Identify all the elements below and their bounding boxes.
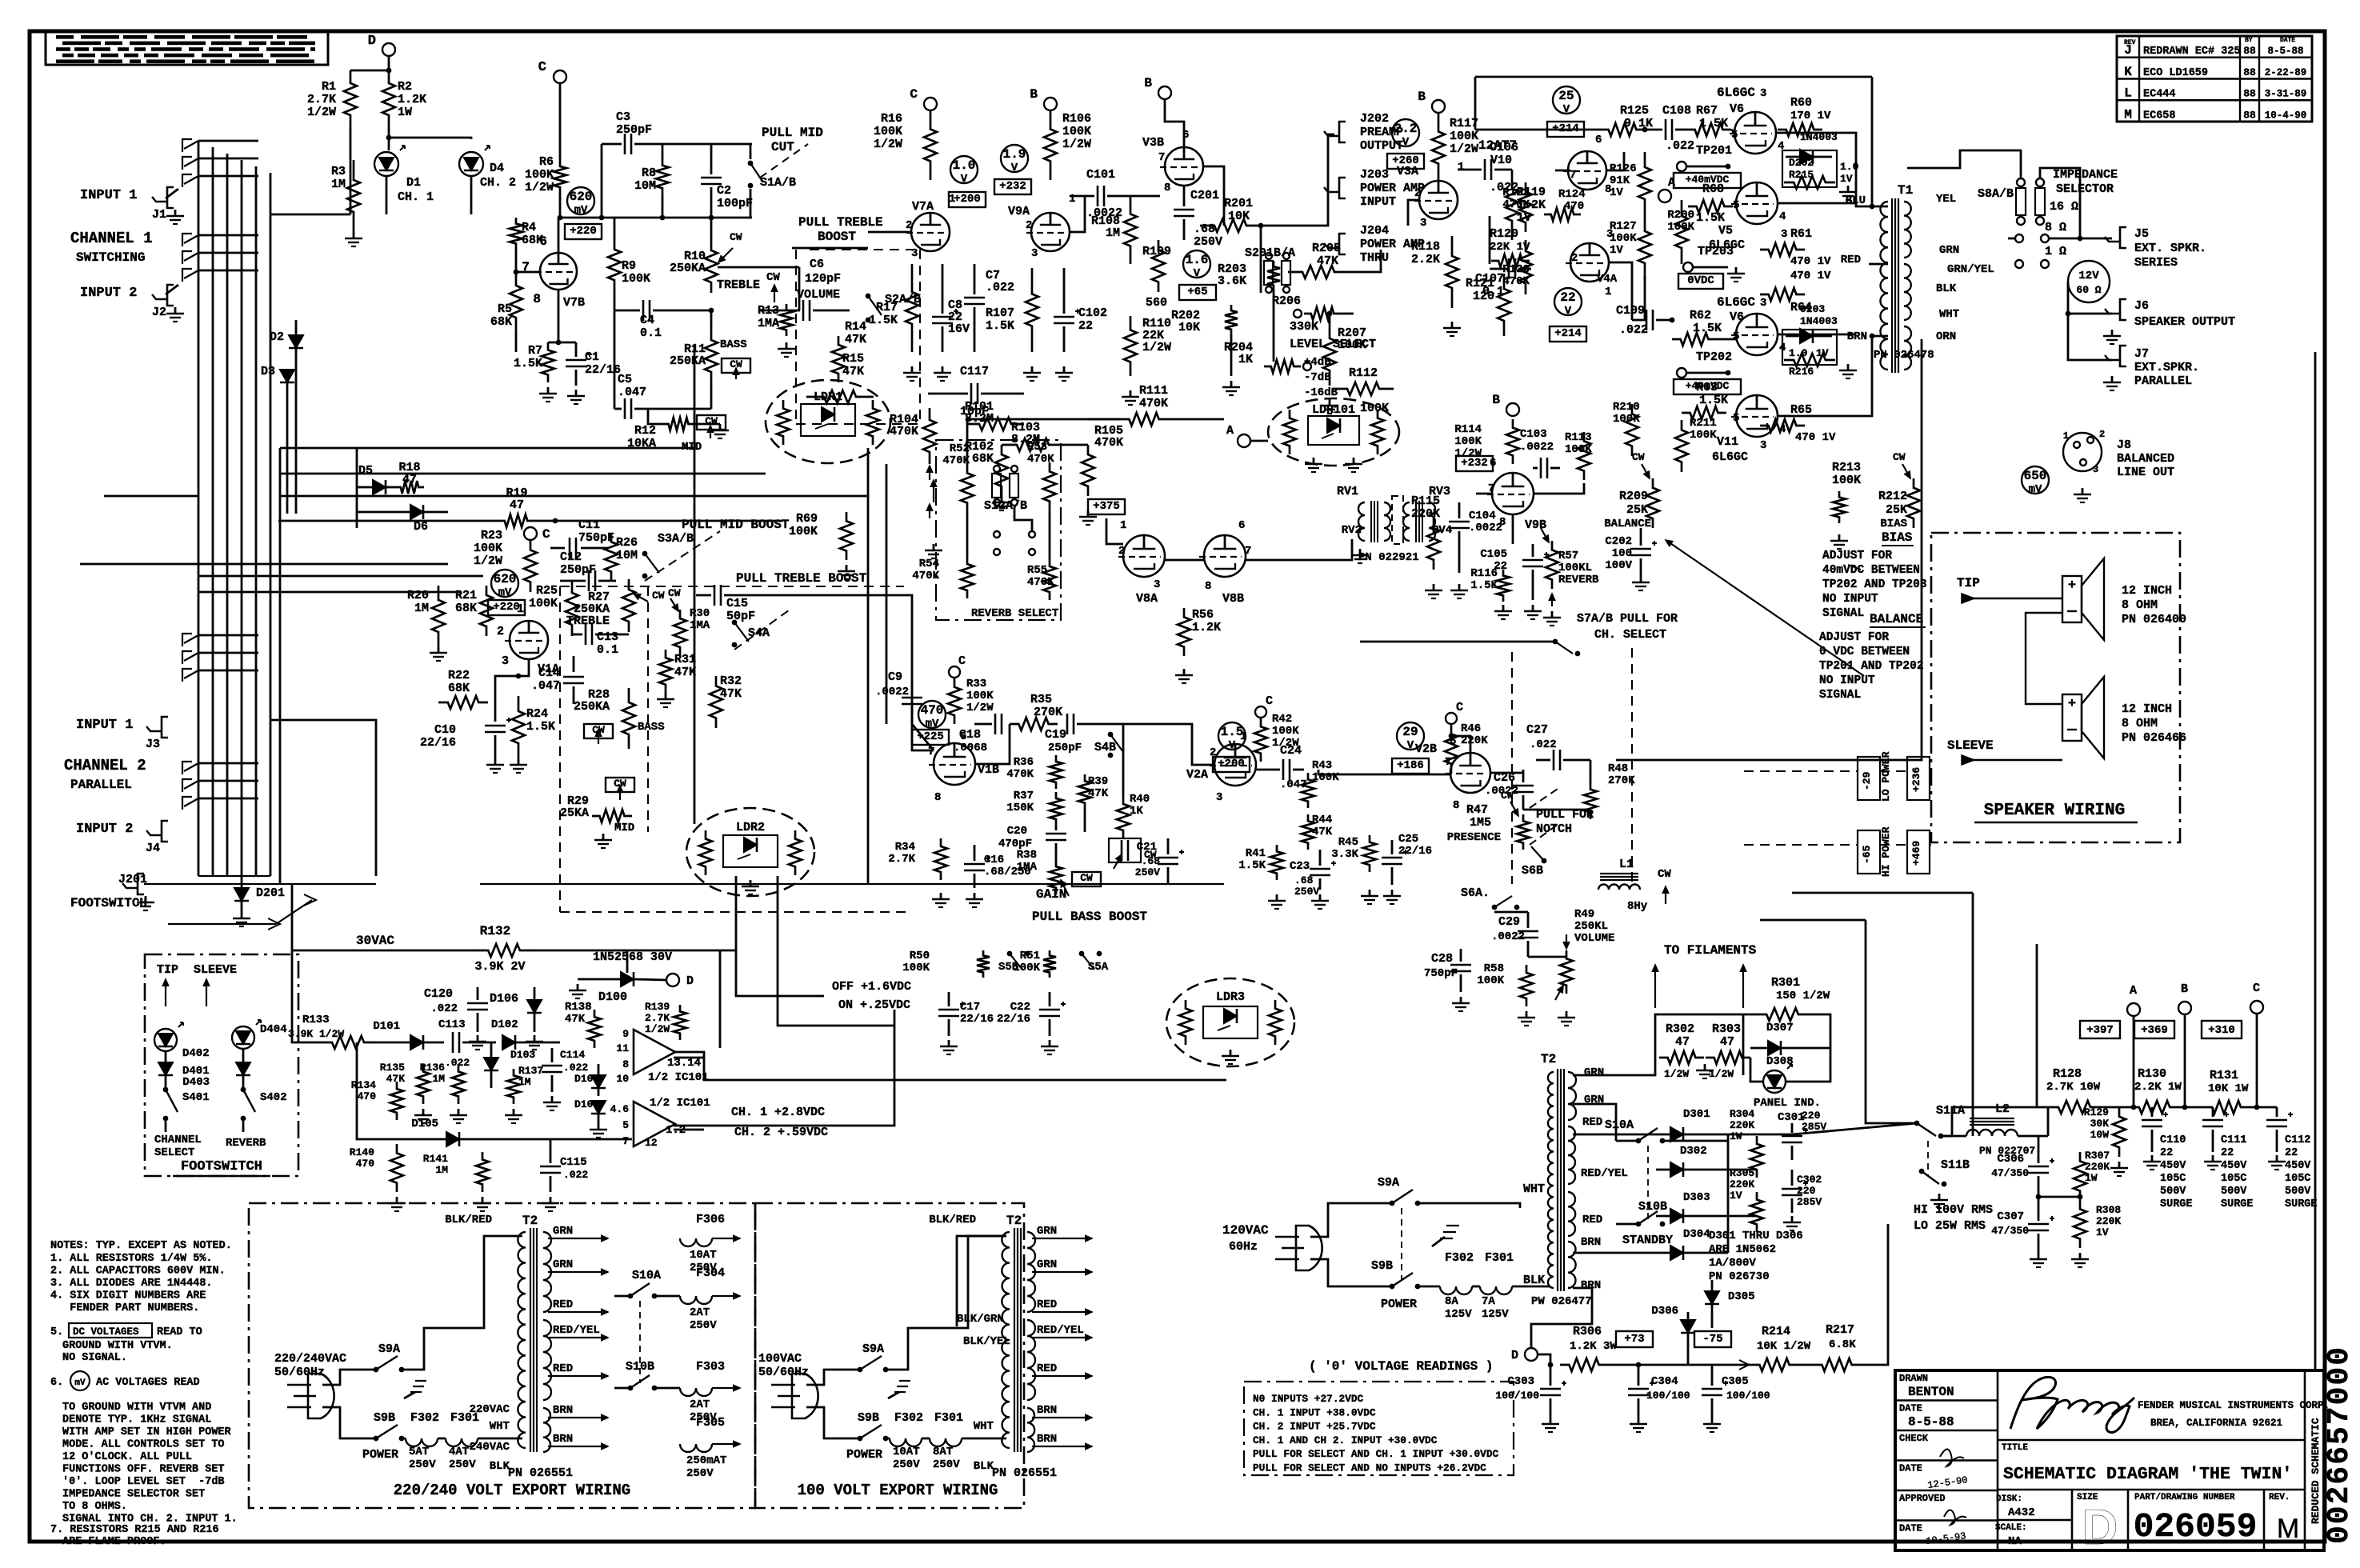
wire — [1476, 493, 1492, 495]
svg-text:C5: C5 — [618, 373, 632, 386]
svg-text:R133: R133 — [302, 1014, 330, 1026]
wire — [886, 1438, 890, 1440]
svg-text:.022: .022 — [563, 1062, 588, 1074]
svg-text:IMPEDANCE SELECTOR SET: IMPEDANCE SELECTOR SET — [62, 1489, 205, 1501]
wire — [2036, 944, 2038, 1107]
svg-text:100K: 100K — [1832, 474, 1861, 487]
svg-text:J1: J1 — [152, 208, 166, 222]
svg-text:250V: 250V — [449, 1458, 476, 1471]
ground — [174, 307, 177, 314]
svg-text:560: 560 — [1146, 296, 1167, 310]
svg-text:220K: 220K — [1411, 507, 1440, 521]
svg-text:100K: 100K — [474, 542, 502, 555]
wire — [512, 1138, 632, 1141]
svg-text:1/2 IC101: 1/2 IC101 — [648, 1071, 709, 1084]
svg-text:C105: C105 — [1480, 548, 1507, 561]
svg-text:mV: mV — [74, 1378, 86, 1388]
svg-text:125V: 125V — [1445, 1308, 1472, 1321]
svg-text:.047: .047 — [618, 386, 646, 399]
wire — [1792, 892, 1973, 894]
wire — [1871, 77, 1874, 206]
svg-text:270K: 270K — [1034, 706, 1062, 719]
svg-text:BLK/YEL: BLK/YEL — [963, 1335, 1010, 1348]
svg-text:470: 470 — [1564, 200, 1584, 213]
jack J1 — [167, 187, 174, 208]
svg-text:GROUND WITH VTVM.: GROUND WITH VTVM. — [62, 1340, 173, 1352]
svg-text:450V: 450V — [2221, 1160, 2247, 1172]
svg-text:1.5: 1.5 — [1221, 725, 1244, 739]
svg-text:R201: R201 — [1224, 197, 1253, 210]
svg-text:.68: .68 — [1142, 855, 1161, 867]
svg-text:REDRAWN EC# 325: REDRAWN EC# 325 — [2143, 46, 2241, 58]
svg-text:4: 4 — [1779, 210, 1786, 223]
svg-text:6L6GC: 6L6GC — [1717, 295, 1755, 310]
dc +186 — [1392, 758, 1429, 774]
dash — [734, 608, 792, 650]
svg-text:1: 1 — [1069, 193, 1075, 206]
svg-text:R34: R34 — [895, 841, 915, 854]
dc +469 — [1907, 830, 1930, 874]
ldr LDR3 — [1166, 978, 1294, 1066]
svg-text:47K: 47K — [842, 365, 864, 378]
svg-text:TIP: TIP — [157, 963, 178, 977]
svg-text:R65: R65 — [1790, 403, 1812, 417]
svg-text:470K: 470K — [1006, 768, 1034, 781]
reverb select box — [936, 440, 1061, 620]
svg-text:100K: 100K — [1690, 429, 1717, 442]
svg-text:3: 3 — [2093, 464, 2098, 475]
svg-text:INPUT 2: INPUT 2 — [80, 286, 137, 301]
svg-text:PN 026478: PN 026478 — [1874, 349, 1934, 362]
svg-text:B: B — [1492, 393, 1500, 407]
capacitor C110 — [2142, 1119, 2162, 1122]
svg-text:105C: 105C — [2285, 1173, 2310, 1185]
svg-text:IMPEDANCE: IMPEDANCE — [2053, 168, 2118, 182]
dc +397 — [2080, 1021, 2120, 1038]
wire top rail — [1475, 76, 1872, 78]
wire — [402, 1236, 522, 1370]
svg-text:MODE. ALL CONTROLS SET TO: MODE. ALL CONTROLS SET TO — [62, 1439, 225, 1451]
svg-text:REVERB: REVERB — [1558, 574, 1599, 586]
svg-text:R57: R57 — [1558, 550, 1578, 562]
svg-text:S4B: S4B — [1094, 741, 1116, 754]
ac 25V — [1553, 86, 1580, 114]
svg-text:D201: D201 — [256, 886, 285, 900]
svg-text:D100: D100 — [598, 990, 627, 1004]
wire — [1070, 196, 1085, 232]
svg-text:R2: R2 — [398, 80, 412, 94]
svg-text:FUNCTIONS OFF. REVERB SET: FUNCTIONS OFF. REVERB SET — [62, 1464, 225, 1476]
svg-text:6: 6 — [1595, 134, 1602, 146]
svg-text:+214: +214 — [1554, 327, 1582, 340]
svg-text:WHT: WHT — [1939, 308, 1959, 321]
svg-text:PARALLEL: PARALLEL — [2134, 374, 2192, 388]
svg-text:-75: -75 — [1702, 1333, 1722, 1346]
svg-text:1M: 1M — [1106, 226, 1120, 240]
svg-text:25K: 25K — [1886, 503, 1907, 517]
svg-text:RED/YEL: RED/YEL — [1581, 1167, 1628, 1180]
dc +260 — [1387, 154, 1424, 169]
svg-text:L: L — [2124, 86, 2132, 101]
svg-text:D: D — [2082, 1500, 2118, 1555]
svg-text:S10A: S10A — [1605, 1118, 1634, 1132]
wire — [1494, 911, 1528, 914]
svg-text:4. SIX DIGIT NUMBERS ARE: 4. SIX DIGIT NUMBERS ARE — [50, 1290, 206, 1302]
svg-text:22: 22 — [2285, 1147, 2298, 1159]
svg-text:SWITCHING: SWITCHING — [76, 250, 145, 265]
wire — [356, 448, 358, 528]
svg-text:4.6: 4.6 — [610, 1103, 630, 1115]
wire — [480, 883, 1224, 885]
op-amp IC101a — [634, 1030, 675, 1074]
svg-text:1.2K: 1.2K — [1192, 621, 1221, 634]
svg-text:91K: 91K — [1610, 174, 1630, 187]
wire — [1260, 226, 1262, 293]
dc +40mVDC b — [1674, 379, 1741, 394]
svg-text:S11A: S11A — [1936, 1104, 1965, 1118]
tube V6b — [1736, 314, 1778, 355]
svg-text:8AT: 8AT — [933, 1446, 953, 1458]
svg-text:+232: +232 — [999, 180, 1026, 193]
channel switching bus — [198, 141, 200, 876]
svg-text:S402: S402 — [260, 1091, 287, 1104]
svg-text:100K: 100K — [1013, 962, 1040, 974]
wire — [2026, 613, 2062, 704]
export wiring box 2 — [754, 1203, 757, 1508]
jack J3 — [162, 717, 168, 738]
svg-text:R46: R46 — [1461, 722, 1481, 735]
svg-text:2AT: 2AT — [690, 1398, 710, 1411]
svg-text:J: J — [2124, 43, 2132, 58]
svg-text:D301: D301 — [1683, 1108, 1710, 1121]
svg-text:88: 88 — [2243, 88, 2256, 100]
wire — [975, 724, 1010, 764]
svg-text:8: 8 — [622, 1058, 629, 1070]
svg-text:0203: 0203 — [1800, 303, 1825, 315]
wire — [2101, 1106, 2130, 1109]
svg-text:7: 7 — [1245, 545, 1251, 558]
node B — [2178, 1002, 2191, 1014]
ac 470mV — [918, 701, 946, 728]
wire — [2314, 352, 2317, 1370]
svg-text:100K: 100K — [1360, 402, 1389, 415]
arrow — [1666, 540, 1864, 676]
svg-text:CW: CW — [1658, 868, 1671, 881]
wire — [1742, 1014, 1745, 1075]
svg-text:3. ALL DIODES ARE 1N4448.: 3. ALL DIODES ARE 1N4448. — [50, 1278, 213, 1290]
svg-text:3: 3 — [1760, 297, 1766, 310]
svg-text:D5: D5 — [358, 464, 373, 478]
wire — [1084, 810, 1086, 832]
svg-text:R134: R134 — [351, 1079, 376, 1091]
svg-text:BENTON: BENTON — [1908, 1385, 1954, 1399]
svg-text:F303: F303 — [696, 1360, 725, 1374]
svg-text:R45: R45 — [1338, 836, 1358, 849]
node D — [1525, 1348, 1538, 1361]
svg-text:J5: J5 — [2134, 227, 2149, 241]
svg-text:620: 620 — [494, 572, 517, 586]
svg-text:R54: R54 — [919, 558, 939, 570]
svg-text:R308: R308 — [2096, 1204, 2121, 1216]
svg-text:25KA: 25KA — [560, 806, 589, 820]
tube V1B — [934, 743, 975, 785]
wire — [1760, 919, 1866, 922]
dash — [559, 586, 561, 912]
svg-text:V5: V5 — [1718, 224, 1733, 238]
svg-text:100K: 100K — [789, 525, 818, 538]
svg-text:R20: R20 — [407, 589, 429, 602]
svg-text:BRN: BRN — [1581, 1236, 1601, 1249]
dc label +220 — [488, 600, 525, 615]
voltage readings box — [1244, 1382, 1514, 1475]
svg-text:R21: R21 — [455, 589, 477, 602]
svg-text:R212: R212 — [1878, 490, 1907, 503]
svg-text:S10B: S10B — [1638, 1200, 1667, 1214]
wire — [291, 884, 294, 950]
svg-text:D402: D402 — [182, 1047, 210, 1060]
svg-text:2: 2 — [497, 625, 504, 638]
svg-text:C: C — [538, 60, 546, 75]
wire — [912, 724, 934, 750]
svg-text:D303: D303 — [1683, 1191, 1710, 1204]
revision table — [2117, 36, 2312, 122]
svg-text:V1B: V1B — [978, 763, 999, 777]
svg-text:D106: D106 — [490, 992, 518, 1006]
svg-text:1M5: 1M5 — [1470, 816, 1491, 830]
svg-text:C120: C120 — [424, 987, 453, 1001]
svg-text:V: V — [1402, 136, 1410, 149]
dash — [560, 911, 912, 913]
svg-text:MID: MID — [614, 822, 634, 834]
wire — [694, 344, 696, 824]
svg-text:CHANNEL: CHANNEL — [154, 1134, 202, 1146]
wire — [1662, 1140, 1728, 1142]
svg-text:R6: R6 — [539, 155, 554, 169]
svg-text:+65: +65 — [1187, 286, 1207, 298]
svg-text:BLK/RED: BLK/RED — [445, 1214, 492, 1226]
wire — [1534, 483, 1584, 494]
svg-text:F305: F305 — [696, 1416, 725, 1430]
svg-text:R8: R8 — [642, 166, 656, 180]
svg-text:CH. 1 +2.8VDC: CH. 1 +2.8VDC — [731, 1106, 825, 1119]
svg-text:J2: J2 — [152, 306, 166, 319]
wire — [1866, 920, 1917, 1123]
svg-text:R13: R13 — [758, 304, 779, 318]
svg-text:68K: 68K — [448, 682, 470, 695]
svg-text:GRN: GRN — [1584, 1066, 1604, 1079]
svg-text:47K: 47K — [674, 666, 696, 679]
svg-text:C101: C101 — [1086, 168, 1115, 182]
svg-text:3: 3 — [1216, 791, 1222, 804]
svg-text:RED: RED — [1582, 1214, 1602, 1226]
svg-text:R120: R120 — [1490, 227, 1518, 241]
svg-text:( '0' VOLTAGE READINGS ): ( '0' VOLTAGE READINGS ) — [1309, 1359, 1493, 1374]
wire — [280, 473, 766, 475]
svg-text:R118: R118 — [1411, 240, 1440, 254]
svg-text:PN 026551: PN 026551 — [508, 1466, 573, 1480]
wire — [806, 1407, 860, 1438]
wire — [280, 495, 868, 498]
svg-text:R56: R56 — [1192, 608, 1214, 622]
svg-text:1W: 1W — [398, 106, 412, 119]
svg-text:3.3K: 3.3K — [1331, 848, 1358, 861]
svg-text:CW: CW — [705, 415, 718, 427]
svg-text:T1: T1 — [1898, 183, 1913, 198]
wire — [1941, 1135, 1966, 1138]
svg-text:DATE: DATE — [1899, 1403, 1922, 1414]
op-amp IC101b — [634, 1102, 675, 1146]
svg-text:1MA: 1MA — [690, 619, 710, 632]
svg-text:R26: R26 — [616, 536, 638, 550]
wire — [144, 883, 376, 885]
svg-text:CH. 1: CH. 1 — [398, 190, 434, 204]
svg-text:1: 1 — [1605, 286, 1611, 298]
svg-text:NA: NA — [2008, 1535, 2022, 1548]
svg-text:750pF: 750pF — [1424, 967, 1458, 980]
svg-text:+369: +369 — [2141, 1024, 2168, 1037]
svg-text:3: 3 — [1760, 439, 1766, 452]
node C — [924, 98, 937, 110]
svg-text:S9B: S9B — [374, 1411, 395, 1425]
svg-text:V: V — [1229, 739, 1236, 752]
svg-text:C22: C22 — [1010, 1001, 1030, 1014]
svg-text:9.1K: 9.1K — [1624, 117, 1653, 130]
wire — [752, 594, 886, 597]
svg-text:R12: R12 — [634, 424, 656, 438]
svg-text:LDR101: LDR101 — [1312, 403, 1355, 417]
svg-text:CH. SELECT: CH. SELECT — [1594, 628, 1666, 642]
svg-text:+310: +310 — [2208, 1024, 2235, 1037]
svg-text:C: C — [1456, 701, 1463, 714]
svg-text:+220: +220 — [493, 601, 520, 614]
svg-text:2AT: 2AT — [690, 1306, 710, 1319]
svg-text:R51: R51 — [1020, 950, 1040, 962]
svg-text:29: 29 — [1402, 725, 1418, 739]
svg-text:3: 3 — [1760, 87, 1766, 100]
svg-text:C18: C18 — [959, 728, 981, 742]
wire — [957, 1236, 1006, 1326]
switch S402 — [242, 1075, 245, 1088]
svg-text:100K: 100K — [1338, 338, 1366, 352]
dc -29 — [1858, 757, 1880, 800]
svg-text:R25: R25 — [536, 584, 558, 598]
svg-text:PULL BASS BOOST: PULL BASS BOOST — [1032, 910, 1147, 924]
svg-text:V7A: V7A — [912, 200, 934, 214]
svg-text:F306: F306 — [696, 1213, 725, 1226]
svg-text:1M: 1M — [432, 1073, 445, 1085]
plug 120VAC — [1296, 1226, 1322, 1270]
svg-text:S6A.: S6A. — [1461, 886, 1490, 900]
svg-text:500V: 500V — [2221, 1186, 2247, 1198]
svg-text:C20: C20 — [1007, 825, 1027, 838]
svg-text:105C: 105C — [2160, 1173, 2186, 1185]
node C2 — [524, 527, 537, 540]
svg-text:3: 3 — [1420, 217, 1426, 230]
wire — [1555, 170, 1570, 172]
svg-text:LDR2: LDR2 — [736, 821, 765, 834]
svg-text:1/2W: 1/2W — [1142, 341, 1171, 354]
wire — [1728, 1134, 1792, 1136]
svg-text:RED/YEL: RED/YEL — [1037, 1324, 1084, 1337]
svg-text:D306: D306 — [1651, 1305, 1678, 1318]
svg-text:10K: 10K — [1178, 321, 1200, 334]
svg-text:47K: 47K — [1312, 826, 1333, 838]
svg-text:+225: +225 — [917, 730, 944, 743]
svg-text:R302: R302 — [1666, 1022, 1694, 1036]
svg-text:60 Ω: 60 Ω — [2076, 284, 2101, 296]
wire — [1491, 772, 1523, 774]
svg-text:100K: 100K — [1477, 974, 1504, 987]
dc +73 — [1616, 1331, 1653, 1347]
svg-text:0.1: 0.1 — [640, 326, 662, 340]
svg-text:.022: .022 — [563, 1169, 588, 1181]
svg-text:V: V — [1565, 305, 1572, 318]
svg-text:8: 8 — [934, 791, 941, 804]
svg-text:V8B: V8B — [1222, 592, 1244, 606]
svg-text:R37: R37 — [1014, 790, 1034, 802]
wire — [1523, 809, 1590, 811]
svg-text:R58: R58 — [1484, 962, 1504, 975]
speaker wiring box — [1931, 533, 2180, 842]
svg-text:DENOTE TYP. 1KHz SIGNAL: DENOTE TYP. 1KHz SIGNAL — [62, 1414, 211, 1426]
svg-text:SURGE: SURGE — [2285, 1198, 2318, 1210]
svg-text:250V: 250V — [1294, 886, 1319, 898]
svg-text:T2: T2 — [1006, 1214, 1022, 1228]
wire — [1088, 418, 1120, 421]
svg-text:M: M — [2124, 107, 2132, 122]
svg-text:30VAC: 30VAC — [356, 934, 394, 948]
svg-text:47K: 47K — [845, 333, 866, 346]
svg-text:22K 1V: 22K 1V — [1490, 241, 1530, 254]
svg-text:D2: D2 — [270, 330, 284, 344]
dc +200 — [1213, 757, 1250, 772]
svg-text:0026657000: 0026657000 — [2322, 1346, 2357, 1544]
svg-text:AC VOLTAGES READ: AC VOLTAGES READ — [96, 1377, 200, 1389]
svg-text:C102: C102 — [1078, 306, 1107, 320]
svg-text:D1: D1 — [406, 176, 421, 190]
svg-text:SCHEMATIC DIAGRAM 'THE TWIN': SCHEMATIC DIAGRAM 'THE TWIN' — [2003, 1465, 2292, 1484]
svg-text:CHANNEL 2: CHANNEL 2 — [64, 757, 146, 774]
svg-text:SURGE: SURGE — [2160, 1198, 2193, 1210]
jack J2 — [167, 285, 174, 306]
ldr LDR2 — [686, 808, 814, 896]
svg-text:8: 8 — [1164, 182, 1170, 194]
svg-text:BASS: BASS — [720, 338, 747, 351]
svg-text:.0068: .0068 — [954, 742, 987, 754]
svg-text:D103: D103 — [510, 1049, 535, 1061]
svg-text:1/2W: 1/2W — [525, 181, 554, 194]
svg-text:S9A: S9A — [378, 1342, 400, 1356]
svg-text:ARE FLAME PROOF.: ARE FLAME PROOF. — [62, 1536, 166, 1548]
svg-text:1/2 IC101: 1/2 IC101 — [650, 1097, 710, 1110]
svg-text:.022: .022 — [1530, 738, 1557, 751]
svg-text:-7dB: -7dB — [1304, 371, 1331, 384]
wire — [868, 231, 911, 234]
svg-text:GRN: GRN — [1037, 1225, 1057, 1238]
svg-text:8: 8 — [1499, 516, 1506, 529]
ldr LDR101 — [1268, 398, 1399, 466]
svg-text:8 OHM: 8 OHM — [2122, 717, 2158, 730]
svg-text:1V: 1V — [2096, 1226, 2109, 1238]
svg-text:CH. 2 +.59VDC: CH. 2 +.59VDC — [734, 1126, 828, 1139]
svg-text:EXT.SPKR.: EXT.SPKR. — [2134, 361, 2199, 374]
svg-text:47: 47 — [510, 498, 524, 512]
svg-text:R138: R138 — [565, 1001, 592, 1014]
svg-text:R307: R307 — [2085, 1150, 2110, 1162]
svg-text:R210: R210 — [1613, 401, 1640, 414]
svg-text:R107: R107 — [986, 306, 1014, 320]
svg-text:WHT: WHT — [490, 1420, 510, 1433]
